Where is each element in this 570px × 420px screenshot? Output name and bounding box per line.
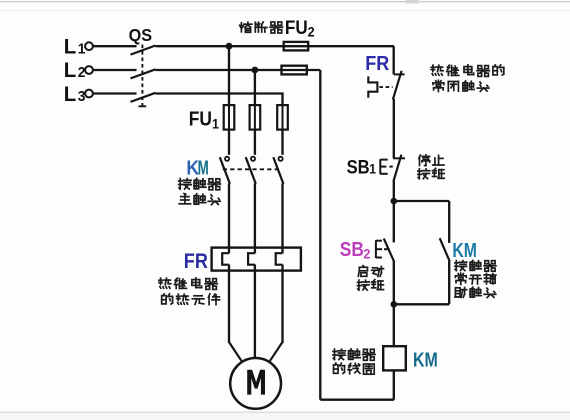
fuse FU1 phase A (228, 105, 230, 129)
svg-text:SB: SB (347, 156, 370, 178)
wire bottom rail (320, 399, 394, 401)
wire phase C contact to FR heater (281, 183, 283, 253)
wire FR contact to SB1 (393, 99, 395, 159)
svg-text:2: 2 (308, 24, 315, 40)
wire coil to bottom rail (393, 370, 395, 399)
svg-text:3: 3 (78, 88, 86, 104)
label text "启动" (358, 266, 383, 277)
label text "主触头" (179, 194, 220, 205)
fuse FU1 phase B (254, 105, 256, 129)
label text "接触器" (455, 260, 496, 271)
wire motor lead right diagonal (270, 342, 283, 361)
thermal element FR phase A (222, 253, 229, 265)
wire phase B FU1 to KM contact (254, 130, 256, 155)
svg-text:FU: FU (285, 16, 308, 38)
wire phase A below FR (228, 265, 230, 344)
fuse FU1 phase C (282, 105, 284, 129)
wire phase C drop to FU1 (281, 94, 283, 106)
label FR (contact) (365, 53, 389, 75)
thermal relay FR actuator (368, 76, 377, 97)
contactor coil KM (383, 346, 406, 370)
pushbutton SB1 (stop, NC) (393, 157, 405, 159)
wire L3 run (156, 92, 284, 94)
label text "按钮" (358, 280, 384, 290)
thermal relay FR heater box (212, 248, 301, 271)
label text "接触器" (179, 178, 221, 189)
contactor KM aux NO contact (440, 238, 450, 261)
svg-text:FR: FR (184, 250, 208, 274)
wire control return column (319, 70, 321, 400)
svg-text:L: L (64, 35, 77, 59)
svg-text:SB: SB (340, 239, 364, 262)
label text "接触器" (333, 349, 375, 360)
svg-text:1: 1 (212, 116, 220, 132)
svg-text:1: 1 (78, 40, 86, 56)
wire phase B below FR (254, 265, 256, 359)
contactor KM main contact B (251, 157, 255, 161)
wire aux branch return (394, 303, 449, 305)
node B (391, 198, 398, 205)
label QS (129, 25, 152, 45)
fuse FU2 upper (284, 42, 309, 51)
svg-text:KM: KM (413, 348, 438, 371)
wire node C to coil (393, 304, 395, 346)
wire phase A FU1 to KM contact (228, 130, 230, 155)
switch QS blade 3 (131, 93, 156, 102)
motor M (230, 358, 281, 409)
label text "熔断器" (240, 22, 283, 33)
wire L1 to FU2 and node A (156, 45, 395, 47)
label KM (coil) (413, 348, 438, 371)
thermal element FR phase B (248, 253, 255, 265)
svg-text:FR: FR (365, 53, 389, 75)
wire node B to aux branch (394, 200, 449, 202)
svg-text:2: 2 (363, 246, 370, 262)
thermal element FR phase C (276, 253, 283, 265)
svg-text:1: 1 (369, 161, 376, 177)
terminal L1 (85, 42, 93, 50)
label text "热继电器的" (431, 65, 504, 76)
node C (391, 301, 398, 308)
svg-text:2: 2 (78, 64, 86, 80)
label text "热继电器" (159, 278, 217, 290)
label FR (heater) (184, 250, 208, 274)
label text "的线圈" (334, 363, 375, 374)
label FU1 (189, 107, 212, 129)
node L1-tap (226, 43, 233, 50)
wire aux branch drop (448, 201, 450, 243)
label text "常开辅" (455, 273, 496, 284)
svg-text:QS: QS (129, 25, 152, 45)
wire SB1 to node B (393, 181, 395, 201)
label FU2 (285, 16, 308, 38)
switch QS linkage dashed (141, 45, 143, 107)
svg-text:L: L (64, 59, 77, 83)
wire L3 lead (93, 92, 136, 94)
wire phase A contact to FR heater (228, 183, 230, 253)
wire phase C below FR (281, 265, 283, 344)
switch QS blade 2 (131, 69, 156, 78)
svg-text:KM: KM (452, 239, 477, 261)
wire SB2 upper (393, 201, 395, 242)
svg-text:M: M (198, 157, 209, 179)
wire FU2 to FR contact corner (393, 46, 395, 74)
terminal L2 (85, 66, 93, 74)
switch QS blade 1 (131, 46, 156, 55)
node L2-tap (252, 67, 259, 74)
label L3 (64, 83, 77, 107)
label text "常闭触头" (433, 80, 489, 91)
label L1 (64, 35, 77, 59)
wire L2 to FU2 (156, 69, 321, 71)
wire phase A drop to FU1 (228, 46, 230, 105)
label text "的热元件" (162, 294, 220, 305)
label text "停止" (419, 155, 444, 166)
wire phase B contact to FR heater (254, 183, 256, 253)
wire SB2 lower to node C (393, 261, 395, 304)
label SB1 (347, 156, 370, 178)
label L2 (64, 59, 77, 83)
fuse FU2 lower (282, 66, 307, 75)
pushbutton SB2 (start, NO) (384, 239, 394, 262)
wire motor lead left diagonal (229, 342, 241, 361)
terminal L3 (85, 90, 93, 98)
contactor KM linkage dashed (223, 168, 281, 170)
label text "按钮" (418, 168, 444, 178)
wire phase C FU1 to KM contact (281, 130, 283, 155)
thermal relay FR NC contact (394, 73, 405, 75)
contactor KM main contact A (225, 157, 229, 161)
wire aux branch lower (448, 261, 450, 304)
label text "助触头" (455, 287, 496, 297)
svg-text:L: L (64, 83, 77, 107)
contactor KM main contact C (279, 157, 283, 161)
svg-text:FU: FU (189, 107, 212, 129)
label SB2 (340, 239, 364, 262)
wire L1 lead (93, 45, 136, 47)
label KM (aux contact) (452, 239, 477, 261)
wire phase B drop to FU1 (254, 70, 256, 105)
label KM (main contacts) (186, 157, 199, 179)
wire L2 lead (93, 69, 136, 71)
